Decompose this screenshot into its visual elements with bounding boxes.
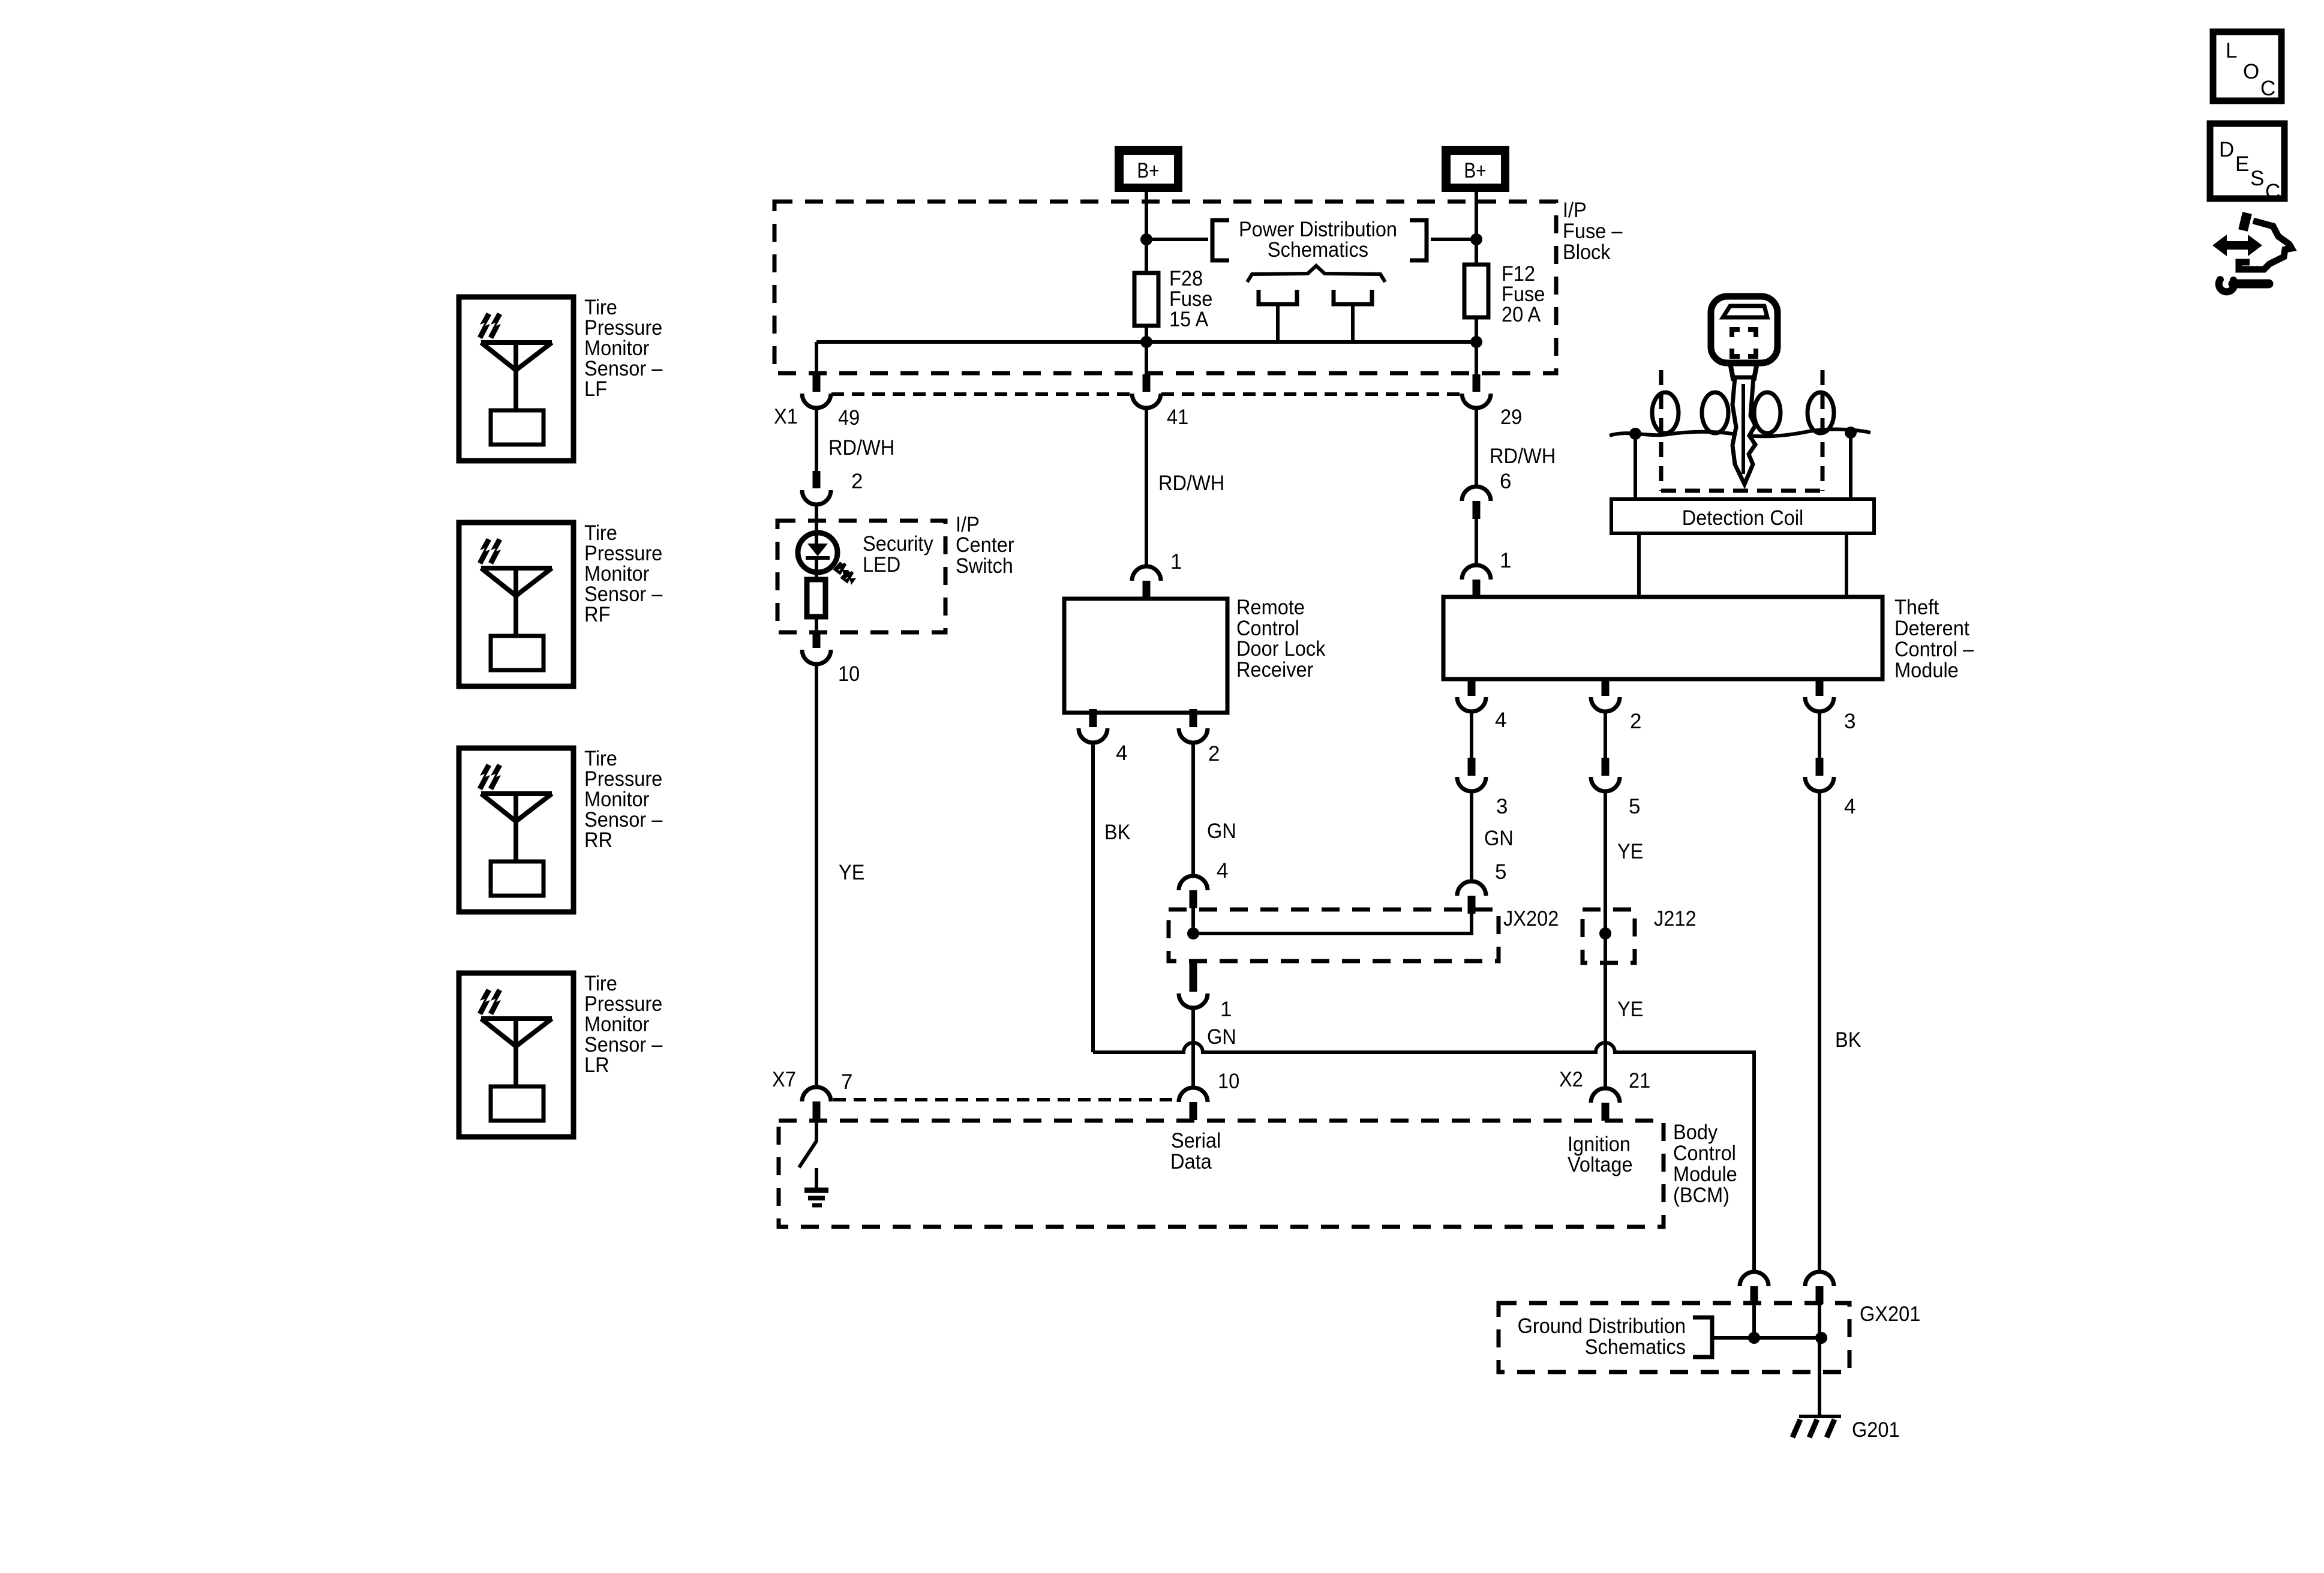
svg-text:Remote: Remote <box>1236 596 1305 619</box>
svg-text:LED: LED <box>863 553 900 577</box>
svg-text:Receiver: Receiver <box>1236 658 1314 682</box>
svg-text:I/P: I/P <box>1563 199 1587 222</box>
svg-text:RD/WH: RD/WH <box>1158 472 1224 495</box>
svg-text:LR: LR <box>584 1053 609 1077</box>
svg-text:RD/WH: RD/WH <box>1490 445 1556 468</box>
svg-text:YE: YE <box>1617 840 1643 863</box>
svg-text:(BCM): (BCM) <box>1673 1184 1730 1207</box>
svg-text:2: 2 <box>851 470 863 493</box>
svg-text:Module: Module <box>1673 1163 1737 1186</box>
svg-text:Voltage: Voltage <box>1568 1153 1633 1176</box>
svg-text:7: 7 <box>841 1070 852 1094</box>
svg-text:4: 4 <box>1844 795 1855 818</box>
svg-text:Theft: Theft <box>1894 596 1939 619</box>
svg-text:49: 49 <box>838 406 860 430</box>
svg-text:Switch: Switch <box>956 554 1013 578</box>
svg-text:C: C <box>2265 180 2280 203</box>
svg-text:Serial: Serial <box>1171 1129 1221 1152</box>
svg-text:3: 3 <box>1844 710 1855 733</box>
svg-text:4: 4 <box>1217 859 1228 882</box>
svg-text:Block: Block <box>1563 241 1611 264</box>
svg-text:Detection Coil: Detection Coil <box>1682 506 1804 530</box>
svg-text:Ground Distribution: Ground Distribution <box>1518 1314 1686 1338</box>
svg-text:LF: LF <box>584 377 607 401</box>
svg-text:21: 21 <box>1629 1069 1650 1092</box>
svg-text:29: 29 <box>1500 406 1522 429</box>
svg-text:L: L <box>2226 39 2237 62</box>
svg-text:D: D <box>2219 138 2234 161</box>
svg-text:J212: J212 <box>1654 907 1697 930</box>
svg-text:6: 6 <box>1500 470 1511 493</box>
svg-text:X1: X1 <box>774 405 798 428</box>
svg-text:Security: Security <box>863 532 933 556</box>
svg-text:S: S <box>2250 167 2264 190</box>
svg-text:G201: G201 <box>1852 1418 1900 1442</box>
svg-text:GN: GN <box>1207 1025 1236 1049</box>
svg-text:BK: BK <box>1835 1028 1861 1052</box>
svg-text:Body: Body <box>1673 1121 1718 1144</box>
svg-text:C: C <box>2260 77 2275 100</box>
svg-text:YE: YE <box>839 861 864 884</box>
svg-text:BK: BK <box>1104 821 1130 844</box>
svg-text:20 A: 20 A <box>1502 303 1541 326</box>
svg-text:GX201: GX201 <box>1860 1302 1920 1326</box>
svg-text:2: 2 <box>1630 710 1641 733</box>
svg-text:Fuse –: Fuse – <box>1563 220 1623 243</box>
svg-text:JX202: JX202 <box>1503 907 1559 930</box>
svg-text:4: 4 <box>1116 742 1127 765</box>
svg-text:2: 2 <box>1208 742 1220 766</box>
svg-text:X7: X7 <box>772 1068 796 1091</box>
svg-text:1: 1 <box>1220 998 1232 1021</box>
svg-text:YE: YE <box>1617 998 1643 1021</box>
svg-text:Data: Data <box>1170 1150 1212 1173</box>
svg-text:Control: Control <box>1673 1142 1736 1165</box>
svg-text:15 A: 15 A <box>1169 308 1209 331</box>
svg-text:Control –: Control – <box>1894 638 1974 661</box>
svg-text:X2: X2 <box>1559 1068 1583 1091</box>
svg-text:Deterent: Deterent <box>1894 617 1969 640</box>
svg-text:4: 4 <box>1495 709 1506 732</box>
svg-text:Schematics: Schematics <box>1585 1335 1686 1359</box>
svg-text:41: 41 <box>1167 406 1188 429</box>
svg-text:RD/WH: RD/WH <box>828 436 894 460</box>
svg-text:GN: GN <box>1484 827 1514 850</box>
svg-text:B+: B+ <box>1137 159 1159 182</box>
svg-text:RR: RR <box>584 828 612 852</box>
svg-text:1: 1 <box>1170 550 1182 574</box>
svg-text:3: 3 <box>1496 795 1508 818</box>
svg-text:5: 5 <box>1629 795 1640 818</box>
svg-text:10: 10 <box>838 662 860 686</box>
svg-text:B+: B+ <box>1464 159 1486 182</box>
svg-text:E: E <box>2235 152 2249 176</box>
svg-text:RF: RF <box>584 603 610 626</box>
svg-text:10: 10 <box>1218 1070 1239 1093</box>
svg-text:GN: GN <box>1207 819 1236 843</box>
svg-text:5: 5 <box>1495 860 1506 884</box>
svg-text:1: 1 <box>1500 549 1511 572</box>
svg-text:O: O <box>2243 60 2259 83</box>
svg-text:Module: Module <box>1894 659 1959 682</box>
svg-text:Schematics: Schematics <box>1268 238 1368 262</box>
svg-text:Center: Center <box>956 533 1014 557</box>
svg-text:Door Lock: Door Lock <box>1236 637 1326 661</box>
